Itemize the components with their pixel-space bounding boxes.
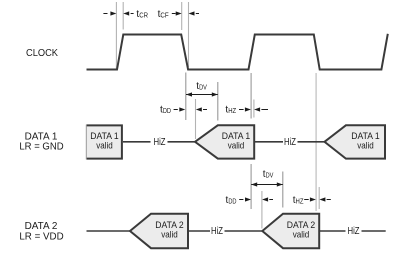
label DATA 1 / LR = GND	[19, 132, 63, 153]
svg-text:valid: valid	[357, 139, 374, 150]
extension line fall1 end (tCF right)	[188, 2, 190, 67]
svg-text:CLOCK: CLOCK	[26, 48, 58, 59]
svg-text:HiZ: HiZ	[284, 137, 296, 148]
svg-text:valid: valid	[293, 229, 310, 240]
dimension tDD DATA1 (data delay after clock fall)	[160, 105, 207, 116]
DATA2 valid box 2 (arrow shape)	[262, 214, 319, 249]
label DATA 2 / LR = VDD	[19, 221, 63, 242]
extension line DATA1 valid2 end (tHZ ref)	[253, 100, 255, 118]
DATA1 valid box 1	[86, 125, 122, 160]
DATA1 valid box 2 (arrow shape)	[195, 125, 254, 158]
wire HiZ segment 1 DATA2	[189, 226, 262, 237]
svg-text:LR = GND: LR = GND	[19, 142, 63, 153]
svg-text:LR = VDD: LR = VDD	[19, 231, 63, 242]
extension line rise1 start (tCR left)	[115, 2, 117, 69]
dimension tDV DATA1 (data valid after clock fall)	[186, 81, 218, 96]
extension line clock fall1 mid (tDV/tDD ref)	[185, 73, 187, 121]
svg-text:HiZ: HiZ	[154, 137, 166, 148]
extension line rise1 end (tCR right)	[122, 2, 124, 30]
wire HiZ segment 1 DATA1	[123, 137, 195, 148]
dimension tDD DATA2 (data delay after clock rise)	[226, 195, 274, 206]
svg-text:valid: valid	[228, 139, 245, 150]
svg-text:HiZ: HiZ	[348, 226, 360, 237]
extension line clock rise2 mid lower (tDD/tDV ref)	[250, 164, 252, 209]
svg-text:valid: valid	[161, 229, 178, 240]
svg-text:valid: valid	[96, 139, 113, 150]
wire HiZ segment 2 DATA2	[320, 226, 386, 237]
DATA2 valid box 1 (arrow shape)	[130, 214, 188, 249]
DATA1 valid box 3 (arrow shape)	[325, 125, 386, 158]
dimension tHZ DATA2 (to Hi-Z after clock fall)	[293, 195, 331, 206]
dimension tDV DATA2 (data valid after clock rise)	[251, 169, 283, 186]
label CLOCK	[26, 48, 58, 59]
extension line DATA1 valid2 start (tDV ref)	[217, 82, 219, 121]
clock waveform	[87, 34, 388, 70]
extension line DATA2 valid2 end (tHZ ref)	[318, 187, 320, 209]
wire HiZ segment 2 DATA1	[255, 137, 325, 148]
extension line DATA1 valid2 tip (tDD ref)	[195, 99, 197, 139]
dimension tCF (clock fall time)	[158, 9, 199, 20]
dimension tCR (clock rise time)	[103, 9, 148, 20]
extension line clock rise2 mid upper (tHZ ref)	[250, 73, 252, 119]
extension line DATA2 valid2 tip (tDD ref)	[261, 191, 263, 229]
dimension tHZ DATA1 (to Hi-Z after clock rise)	[225, 105, 268, 116]
extension line DATA2 valid2 start (tDV ref)	[282, 172, 284, 208]
wire DATA2 lead-in	[87, 230, 131, 232]
svg-text:HiZ: HiZ	[211, 226, 223, 237]
extension line clock fall2 mid (tHZ ref)	[315, 73, 317, 211]
extension line fall1 start (tCF left)	[181, 2, 183, 30]
